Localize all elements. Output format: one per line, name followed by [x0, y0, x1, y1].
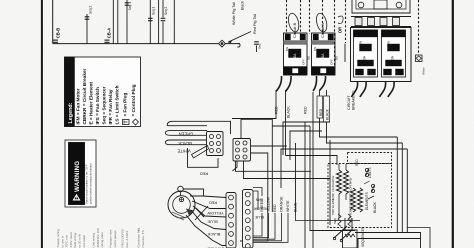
svg-text:CBRKR = Circuit Breaker: CBRKR = Circuit Breaker: [82, 68, 87, 124]
svg-text:OFF: OFF: [302, 59, 306, 65]
svg-text:BLACK: BLACK: [287, 106, 291, 118]
svg-text:RED: RED: [319, 108, 323, 116]
svg-text:Seq 1: Seq 1: [128, 2, 132, 11]
svg-text:RED: RED: [209, 201, 217, 206]
svg-text:OR: OR: [338, 27, 343, 33]
svg-text:60: 60: [335, 56, 339, 60]
svg-text:RED: RED: [200, 172, 209, 177]
svg-text:see label: see label: [82, 235, 86, 248]
svg-text:BLACK: BLACK: [373, 201, 377, 213]
svg-text:OFF: OFF: [330, 59, 334, 65]
svg-text:60: 60: [307, 56, 311, 60]
svg-text:Seq: Seq: [258, 43, 262, 49]
svg-text:Seq 2: Seq 2: [164, 6, 168, 15]
svg-text:Black: Black: [241, 1, 245, 10]
svg-text:BLUE: BLUE: [254, 215, 264, 219]
svg-text:60A: 60A: [321, 53, 325, 60]
svg-text:Seq 1: Seq 1: [152, 6, 156, 15]
svg-text:= Control Plug: = Control Plug: [131, 84, 136, 116]
svg-text:ELEMENTS: ELEMENTS: [365, 191, 369, 210]
svg-text:Red Pig Tail: Red Pig Tail: [253, 14, 257, 34]
svg-text:RED: RED: [275, 106, 279, 114]
svg-text:RED: RED: [273, 204, 277, 212]
svg-text:SEQ: SEQ: [333, 217, 337, 224]
svg-text:LIMITS: LIMITS: [368, 167, 372, 178]
svg-text:BLUE: BLUE: [207, 220, 218, 225]
svg-text:CIRCUIT: CIRCUIT: [347, 95, 351, 110]
svg-text:Legend:: Legend:: [68, 102, 74, 123]
svg-text:BLACK: BLACK: [207, 232, 220, 237]
svg-text:IFM = Fan Motor: IFM = Fan Motor: [75, 88, 80, 124]
svg-text:Seq = Sequencer: Seq = Sequencer: [101, 86, 106, 124]
svg-text:60A: 60A: [293, 53, 297, 60]
svg-text:SEQUENCER: SEQUENCER: [361, 226, 365, 247]
svg-text:Rev. A 0403: Rev. A 0403: [125, 231, 129, 248]
svg-text:BLACK: BLACK: [178, 141, 192, 146]
svg-text:WARNING: WARNING: [74, 161, 81, 192]
svg-text:TOP ELEMENT, 10.2/9.6KW: TOP ELEMENT, 10.2/9.6KW: [331, 176, 335, 215]
svg-text:Houston, TX: Houston, TX: [141, 230, 145, 247]
svg-text:White Pig Tail: White Pig Tail: [232, 2, 236, 25]
svg-text:WHITE: WHITE: [286, 200, 290, 212]
svg-text:CB-A: CB-A: [107, 28, 112, 38]
svg-text:Seq 2: Seq 2: [89, 5, 93, 14]
svg-text:GREEN: GREEN: [179, 132, 194, 137]
svg-text:GREEN: GREEN: [260, 199, 264, 212]
svg-text:= Fan Plug: = Fan Plug: [123, 93, 128, 117]
svg-text:ORANGE: ORANGE: [280, 196, 284, 212]
svg-text:position before servicing the: position before servicing the furnace.: [89, 162, 93, 204]
svg-text:RED: RED: [304, 106, 308, 114]
svg-text:Switch circuit breakers to the: Switch circuit breakers to the "OFF": [84, 164, 88, 204]
svg-text:RED: RED: [355, 159, 359, 166]
svg-text:E = Heater Element: E = Heater Element: [88, 81, 93, 124]
svg-text:rating plate: rating plate: [100, 232, 104, 248]
svg-text:YELLOW: YELLOW: [267, 196, 271, 212]
svg-text:IFR = Fan Relay: IFR = Fan Relay: [108, 89, 113, 124]
svg-text:White: White: [422, 67, 426, 75]
svg-text:CB-B: CB-B: [56, 28, 61, 38]
svg-text:same gauge: same gauge: [113, 230, 117, 247]
svg-text:YELLOW: YELLOW: [207, 211, 224, 216]
svg-text:LS = Limit Switch: LS = Limit Switch: [114, 85, 119, 124]
svg-text:WHITE: WHITE: [177, 148, 190, 153]
svg-text:IFS = Fan Switch: IFS = Fan Switch: [95, 87, 100, 125]
svg-text:BLACK: BLACK: [325, 108, 329, 120]
